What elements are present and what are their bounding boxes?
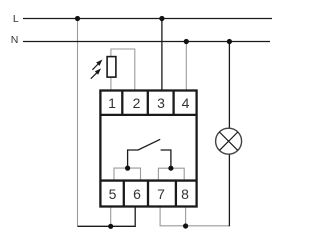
svg-text:7: 7 bbox=[157, 186, 165, 202]
svg-text:N: N bbox=[11, 34, 19, 46]
svg-text:3: 3 bbox=[157, 95, 165, 111]
svg-text:L: L bbox=[13, 13, 19, 25]
svg-text:2: 2 bbox=[133, 95, 141, 111]
svg-text:8: 8 bbox=[181, 186, 189, 202]
svg-text:5: 5 bbox=[109, 186, 117, 202]
svg-text:6: 6 bbox=[133, 186, 141, 202]
svg-text:1: 1 bbox=[108, 95, 116, 111]
svg-text:4: 4 bbox=[182, 95, 190, 111]
